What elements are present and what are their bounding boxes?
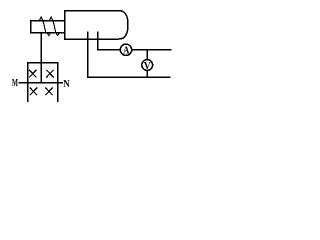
voltmeter branch down — [146, 50, 148, 60]
wire from coil down to rod MN — [40, 33, 42, 83]
field cross bottom-left — [30, 88, 37, 95]
capsule lead left — [87, 32, 89, 77]
voltmeter to bottom wire — [146, 70, 148, 77]
coil winding caret 2 — [49, 17, 52, 21]
svg-text:A: A — [123, 45, 130, 57]
svg-text:V: V — [144, 61, 151, 72]
ammeter A circle — [120, 44, 131, 55]
svg-text:M: M — [12, 78, 18, 89]
voltmeter V circle — [142, 60, 153, 71]
wire from ammeter to right — [132, 49, 171, 51]
coil winding front stroke 2 — [53, 21, 56, 33]
rod MN — [19, 82, 62, 84]
capsule lead right — [97, 32, 99, 50]
coil winding front stroke 1 — [43, 21, 46, 33]
field cross bottom-right — [46, 88, 53, 95]
bottom wire — [88, 76, 170, 78]
coil winding caret 1 — [40, 17, 43, 21]
coil winding under-arc 2 — [56, 33, 60, 36]
field cross top-right — [47, 70, 54, 77]
coil winding under-arc 1 — [47, 33, 51, 36]
field region frame (top + two rails) — [28, 63, 58, 102]
wire to ammeter — [98, 49, 121, 51]
capsule body (rounded right end) — [65, 11, 129, 40]
svg-text:N: N — [63, 79, 70, 90]
field cross top-left — [30, 70, 37, 77]
coil former box (spout on left of capsule) — [31, 21, 65, 33]
